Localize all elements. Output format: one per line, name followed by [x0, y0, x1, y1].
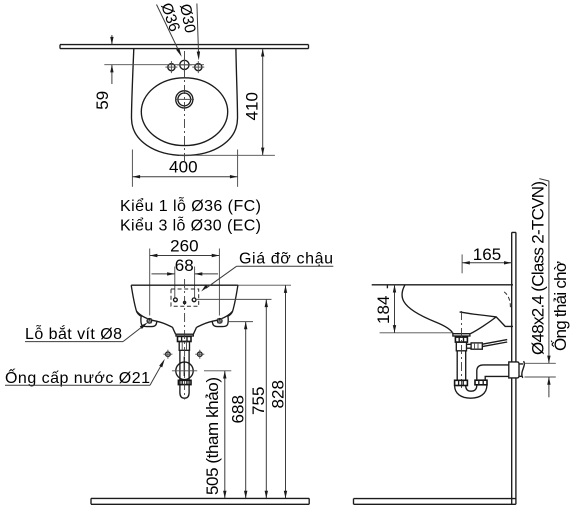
tee to fitting neck [467, 344, 472, 348]
faucet hole left (Ø30) [165, 61, 177, 73]
svg-text:Ø48x2.4 (Class 2-TCVN): Ø48x2.4 (Class 2-TCVN) [529, 181, 548, 355]
trap lower nut [455, 380, 468, 385]
basin top edge (side view) [372, 284, 513, 286]
basin body left outline with lug [131, 285, 172, 327]
pop-up rod (side) [482, 340, 507, 347]
tail nut [178, 336, 192, 341]
svg-text:688: 688 [228, 395, 247, 424]
left lug crease [137, 311, 158, 321]
left lug screw [147, 318, 152, 323]
drain cross line [175, 98, 194, 100]
tail pipe [180, 350, 189, 398]
faucet hole center (Ø36) [177, 58, 192, 73]
centerline (front view) [184, 279, 186, 400]
hole-center extension line [104, 64, 204, 66]
right lug crease [212, 311, 233, 321]
leader Ø36 [157, 1, 183, 57]
front-top tick [386, 285, 388, 289]
compression section [179, 342, 189, 351]
dimension 410 [179, 49, 275, 156]
svg-text:Ống thải chờ: Ống thải chờ [550, 261, 570, 351]
faucet hole right (Ø30) [192, 61, 204, 73]
svg-text:505 (tham khảo): 505 (tham khảo) [203, 377, 222, 495]
basin body right outline with lug [197, 285, 238, 327]
dimension 400 [132, 150, 237, 187]
supply cross right [195, 350, 204, 359]
hidden overflow (dashed) [504, 292, 510, 308]
dimension 184 [374, 285, 453, 333]
nut (side) [455, 337, 467, 342]
basin rear bowl curve [471, 317, 497, 334]
extension line 505 [204, 370, 231, 372]
svg-text:Giá đỡ chậu: Giá đỡ chậu [239, 250, 333, 267]
right lug screw [217, 318, 222, 323]
pipe stub and break [519, 364, 523, 376]
extension line 688 [229, 321, 254, 323]
elbow and horizontal drain pipe [477, 365, 509, 380]
extension line to 828 [238, 284, 291, 286]
basin outline (top view) [131, 49, 237, 156]
tail flange [176, 334, 193, 336]
svg-text:184: 184 [374, 296, 393, 325]
leader Ø30 [176, 3, 200, 61]
dimension 688 [228, 322, 247, 499]
supply cross left [163, 350, 172, 359]
rod fitting [471, 343, 482, 349]
drain outer circle [176, 91, 193, 108]
svg-text:Kiểu 1 lỗ Ø36 (FC): Kiểu 1 lỗ Ø36 (FC) [120, 196, 261, 215]
svg-text:165: 165 [473, 245, 502, 264]
flange (side) [453, 334, 470, 336]
trap centerline [461, 311, 463, 390]
svg-text:410: 410 [243, 92, 262, 121]
bowl ellipse [141, 78, 227, 146]
basin top edge (front view) [131, 284, 238, 286]
drain boss [172, 327, 196, 334]
drain inner circle [178, 93, 191, 106]
svg-text:Ống cấp nước Ø21: Ống cấp nước Ø21 [5, 367, 150, 387]
bracket hole left [174, 298, 178, 302]
svg-text:828: 828 [268, 380, 287, 409]
dimension O48 pipe [525, 179, 556, 398]
floor line (front view) [91, 498, 309, 504]
floor line (side view) [354, 499, 516, 505]
basin rear underside [460, 312, 513, 327]
U-bend outer [455, 385, 487, 398]
extension line 755 [196, 298, 272, 300]
pop-up rod (front) [183, 357, 185, 377]
svg-text:Lỗ bắt vít Ø8: Lỗ bắt vít Ø8 [25, 324, 122, 343]
trap vertical pipe [457, 351, 466, 381]
dimension 260 [150, 236, 220, 315]
svg-text:755: 755 [249, 387, 268, 416]
basin front profile [402, 285, 453, 334]
U-bend inner [466, 385, 477, 391]
dimension 755 [249, 299, 268, 498]
svg-text:Kiểu 3 lỗ Ø30 (EC): Kiểu 3 lỗ Ø30 (EC) [120, 216, 261, 235]
dimension 505 (tham khao) [203, 371, 227, 499]
dimension 59 [93, 35, 114, 110]
label Gia do chau [201, 250, 333, 291]
dimension 68 [152, 256, 219, 298]
trap right nut [475, 380, 487, 385]
centerline (top view) [184, 51, 186, 161]
bracket center hole [184, 301, 186, 303]
trap tee body [456, 342, 466, 351]
wall bracket (dashed) [171, 289, 199, 306]
svg-text:260: 260 [170, 236, 199, 255]
lower nut [178, 380, 191, 384]
dimension 165 [462, 245, 512, 273]
svg-text:400: 400 [169, 158, 198, 177]
wall/counter band (top view) [60, 45, 309, 49]
dimension 828 [268, 285, 287, 498]
label Ong cap nuoc O21 [5, 359, 165, 387]
label Lo bat vit O8 [25, 322, 148, 343]
trap ring [176, 362, 193, 379]
bracket hole right [192, 298, 196, 302]
trap ring cross line [172, 370, 197, 372]
wall escutcheon [509, 362, 519, 378]
wall band (side view) [512, 232, 516, 504]
svg-text:68: 68 [175, 256, 194, 275]
svg-text:59: 59 [93, 91, 112, 110]
